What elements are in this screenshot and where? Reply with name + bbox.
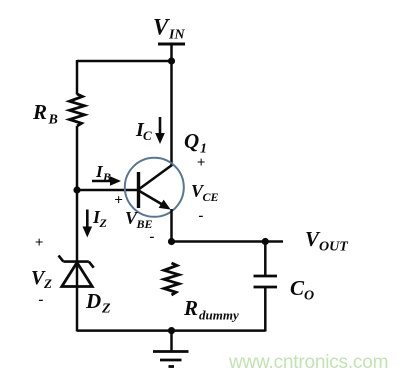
svg-text:-: - — [39, 292, 44, 308]
svg-text:D: D — [85, 289, 101, 313]
label Q1 — [184, 129, 207, 157]
svg-text:Z: Z — [101, 302, 111, 317]
svg-text:C: C — [290, 276, 305, 300]
svg-text:-: - — [199, 208, 204, 224]
svg-text:www.cntronics.com: www.cntronics.com — [228, 352, 388, 373]
label VCE — [191, 181, 219, 204]
label VOUT — [305, 227, 349, 255]
svg-text:R: R — [32, 100, 47, 124]
svg-text:Z: Z — [99, 216, 108, 230]
wire: top horizontal from junction to RB — [77, 60, 172, 63]
wire: down to RB top — [76, 60, 79, 95]
label IB — [95, 162, 111, 184]
current arrow IZ — [83, 210, 93, 238]
current arrow IC — [155, 117, 165, 144]
svg-text:B: B — [48, 113, 58, 128]
svg-text:dummy: dummy — [199, 308, 239, 323]
label CO — [290, 276, 314, 304]
node junction dot at base node — [73, 186, 80, 193]
label IC — [135, 119, 152, 143]
svg-text:V: V — [153, 15, 170, 40]
current arrow IB — [92, 176, 121, 186]
svg-text:Q: Q — [184, 129, 199, 153]
label RB — [32, 100, 58, 128]
node VIN label — [153, 15, 185, 43]
wire: output horizontal — [172, 240, 284, 243]
svg-text:+: + — [197, 155, 206, 171]
transistor Q1 collector stroke — [139, 165, 173, 190]
label Rdummy — [183, 296, 239, 323]
svg-text:+: + — [35, 235, 44, 251]
svg-text:Z: Z — [43, 276, 52, 291]
ground — [153, 331, 189, 367]
label VZ — [31, 267, 52, 291]
capacitor CO — [254, 242, 278, 332]
power supply bar VIN — [158, 43, 185, 46]
transistor Q1 emitter stroke with arrow — [139, 191, 171, 210]
svg-text:O: O — [304, 289, 314, 304]
svg-text:OUT: OUT — [319, 240, 349, 255]
node junction dot at ground — [168, 327, 175, 334]
wire: RB bottom to base node — [76, 126, 79, 332]
transistor Q1 base bar — [137, 172, 140, 208]
svg-text:+: + — [114, 193, 123, 209]
resistor RB — [70, 94, 85, 126]
node junction dot at VIN branch — [168, 57, 175, 64]
wire: bottom rail — [77, 329, 265, 332]
zener diode DZ — [59, 256, 94, 287]
transistor Q1 circle — [125, 158, 184, 217]
wire: VIN bar down to collector region — [170, 44, 173, 166]
wire: base wire to transistor — [77, 189, 139, 192]
node junction dot emitter node — [168, 238, 175, 245]
resistor Rdummy — [164, 263, 179, 295]
label VBE — [125, 208, 153, 231]
label DZ — [85, 289, 111, 317]
svg-text:-: - — [150, 229, 155, 245]
wire: emitter down to output node — [170, 209, 173, 242]
svg-text:R: R — [183, 296, 198, 320]
svg-text:C: C — [143, 128, 152, 143]
svg-text:IN: IN — [168, 28, 185, 43]
label IZ — [92, 207, 108, 230]
svg-text:B: B — [102, 170, 111, 184]
node junction dot at capacitor tap — [262, 238, 269, 245]
svg-text:CE: CE — [203, 190, 219, 204]
